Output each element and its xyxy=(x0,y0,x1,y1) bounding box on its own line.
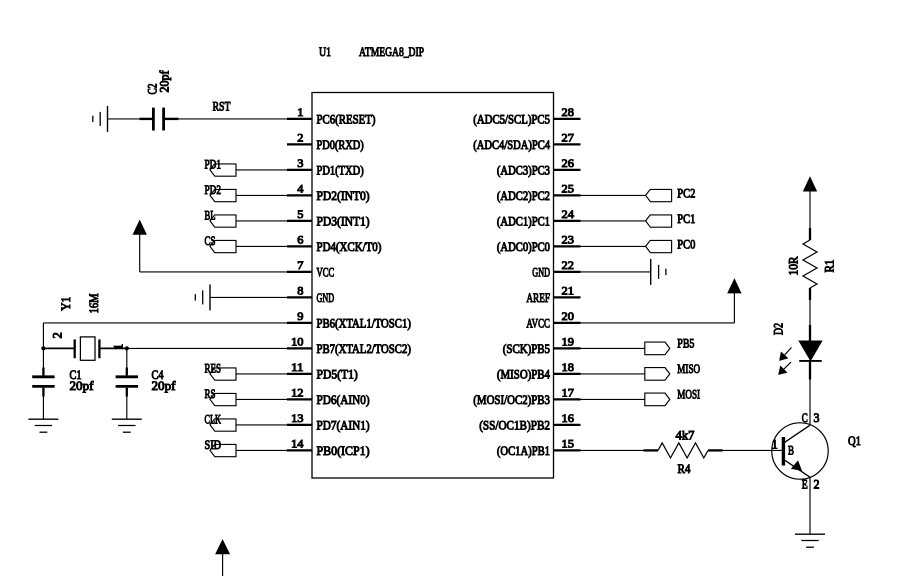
svg-text:2: 2 xyxy=(297,131,303,145)
svg-text:21: 21 xyxy=(562,284,574,298)
svg-text:9: 9 xyxy=(297,309,303,323)
svg-text:MOSI: MOSI xyxy=(677,387,700,402)
svg-text:PD2: PD2 xyxy=(205,182,222,197)
svg-text:PB5: PB5 xyxy=(677,336,694,351)
svg-text:8: 8 xyxy=(297,284,303,298)
svg-text:PC2: PC2 xyxy=(677,186,695,201)
svg-text:MISO: MISO xyxy=(677,361,700,376)
svg-text:12: 12 xyxy=(291,386,303,400)
svg-text:BL: BL xyxy=(205,208,216,223)
svg-text:16M: 16M xyxy=(87,293,101,313)
svg-text:13: 13 xyxy=(291,411,303,425)
svg-text:20pf: 20pf xyxy=(70,378,95,393)
svg-text:3: 3 xyxy=(297,156,303,170)
svg-text:2: 2 xyxy=(51,332,65,338)
svg-text:(ADC5/SCL)PC5: (ADC5/SCL)PC5 xyxy=(473,111,550,126)
svg-text:U1: U1 xyxy=(319,44,331,59)
svg-text:27: 27 xyxy=(562,131,574,145)
svg-text:(ADC0)PC0: (ADC0)PC0 xyxy=(497,239,550,254)
svg-text:RS: RS xyxy=(205,386,216,401)
svg-text:CLK: CLK xyxy=(205,412,222,427)
svg-text:RST: RST xyxy=(213,99,231,114)
svg-text:7: 7 xyxy=(297,258,303,272)
svg-text:5: 5 xyxy=(297,207,303,221)
svg-text:AREF: AREF xyxy=(526,290,550,305)
svg-text:25: 25 xyxy=(562,182,574,196)
svg-text:PD0(RXD): PD0(RXD) xyxy=(317,137,364,152)
svg-text:1: 1 xyxy=(772,436,778,451)
svg-text:(SCK)PB5: (SCK)PB5 xyxy=(503,341,550,356)
svg-text:E: E xyxy=(802,477,808,492)
svg-text:PD1(TXD): PD1(TXD) xyxy=(317,162,364,177)
svg-text:PC0: PC0 xyxy=(677,237,695,252)
svg-text:20: 20 xyxy=(562,309,574,323)
svg-text:PD6(AIN0): PD6(AIN0) xyxy=(317,392,370,407)
svg-text:PD4(XCK/T0): PD4(XCK/T0) xyxy=(317,239,382,254)
svg-text:23: 23 xyxy=(562,233,574,247)
svg-text:(ADC2)PC2: (ADC2)PC2 xyxy=(497,188,550,203)
svg-text:(ADC1)PC1: (ADC1)PC1 xyxy=(497,213,550,228)
svg-text:10: 10 xyxy=(291,335,303,349)
svg-text:4k7: 4k7 xyxy=(676,428,695,443)
svg-text:20pf: 20pf xyxy=(157,70,171,93)
svg-text:20pf: 20pf xyxy=(152,378,177,393)
svg-text:PC1: PC1 xyxy=(677,211,695,226)
svg-text:(OC1A)PB1: (OC1A)PB1 xyxy=(497,443,550,458)
svg-text:1: 1 xyxy=(112,344,126,350)
svg-text:PD1: PD1 xyxy=(205,157,222,172)
svg-text:11: 11 xyxy=(291,360,303,374)
svg-text:R4: R4 xyxy=(678,461,691,476)
svg-text:6: 6 xyxy=(297,233,303,247)
svg-text:PD3(INT1): PD3(INT1) xyxy=(317,213,370,228)
svg-text:10R: 10R xyxy=(786,256,800,276)
svg-text:3: 3 xyxy=(814,410,820,425)
svg-text:PC6(RESET): PC6(RESET) xyxy=(317,111,376,126)
svg-text:18: 18 xyxy=(562,360,574,374)
svg-text:17: 17 xyxy=(562,386,574,400)
svg-text:24: 24 xyxy=(562,207,574,221)
svg-text:Y1: Y1 xyxy=(59,297,73,311)
svg-text:(MOSI/OC2)PB3: (MOSI/OC2)PB3 xyxy=(473,392,550,407)
svg-text:19: 19 xyxy=(562,335,574,349)
svg-text:(MISO)PB4: (MISO)PB4 xyxy=(497,366,551,381)
svg-text:PD2(INT0): PD2(INT0) xyxy=(317,188,370,203)
svg-text:ATMEGA8_DIP: ATMEGA8_DIP xyxy=(359,44,424,59)
svg-text:B: B xyxy=(788,443,794,458)
svg-text:AVCC: AVCC xyxy=(526,315,550,330)
svg-text:16: 16 xyxy=(562,411,574,425)
svg-text:GND: GND xyxy=(317,290,335,305)
svg-text:Q1: Q1 xyxy=(848,433,861,448)
svg-text:4: 4 xyxy=(297,182,303,196)
svg-text:2: 2 xyxy=(814,477,820,492)
svg-text:GND: GND xyxy=(532,264,550,279)
svg-text:(SS/OC1B)PB2: (SS/OC1B)PB2 xyxy=(479,417,550,432)
svg-text:14: 14 xyxy=(291,437,303,451)
svg-text:15: 15 xyxy=(562,437,574,451)
svg-text:PD7(AIN1): PD7(AIN1) xyxy=(317,417,370,432)
svg-text:VCC: VCC xyxy=(317,264,335,279)
svg-text:22: 22 xyxy=(562,258,574,272)
svg-text:(ADC4/SDA)PC4: (ADC4/SDA)PC4 xyxy=(473,137,550,152)
svg-text:28: 28 xyxy=(562,105,574,119)
svg-text:RES: RES xyxy=(205,361,222,376)
svg-text:PD5(T1): PD5(T1) xyxy=(317,366,358,381)
svg-text:PB7(XTAL2/TOSC2): PB7(XTAL2/TOSC2) xyxy=(317,341,411,356)
svg-text:R1: R1 xyxy=(822,260,836,273)
svg-text:SID: SID xyxy=(205,437,222,452)
svg-text:26: 26 xyxy=(562,156,574,170)
svg-text:PB0(ICP1): PB0(ICP1) xyxy=(317,443,370,458)
svg-text:C: C xyxy=(802,410,808,425)
svg-text:1: 1 xyxy=(297,105,303,119)
svg-text:(ADC3)PC3: (ADC3)PC3 xyxy=(497,162,550,177)
svg-text:D2: D2 xyxy=(771,323,785,335)
svg-text:CS: CS xyxy=(205,233,216,248)
svg-text:PB6(XTAL1/TOSC1): PB6(XTAL1/TOSC1) xyxy=(317,315,411,330)
